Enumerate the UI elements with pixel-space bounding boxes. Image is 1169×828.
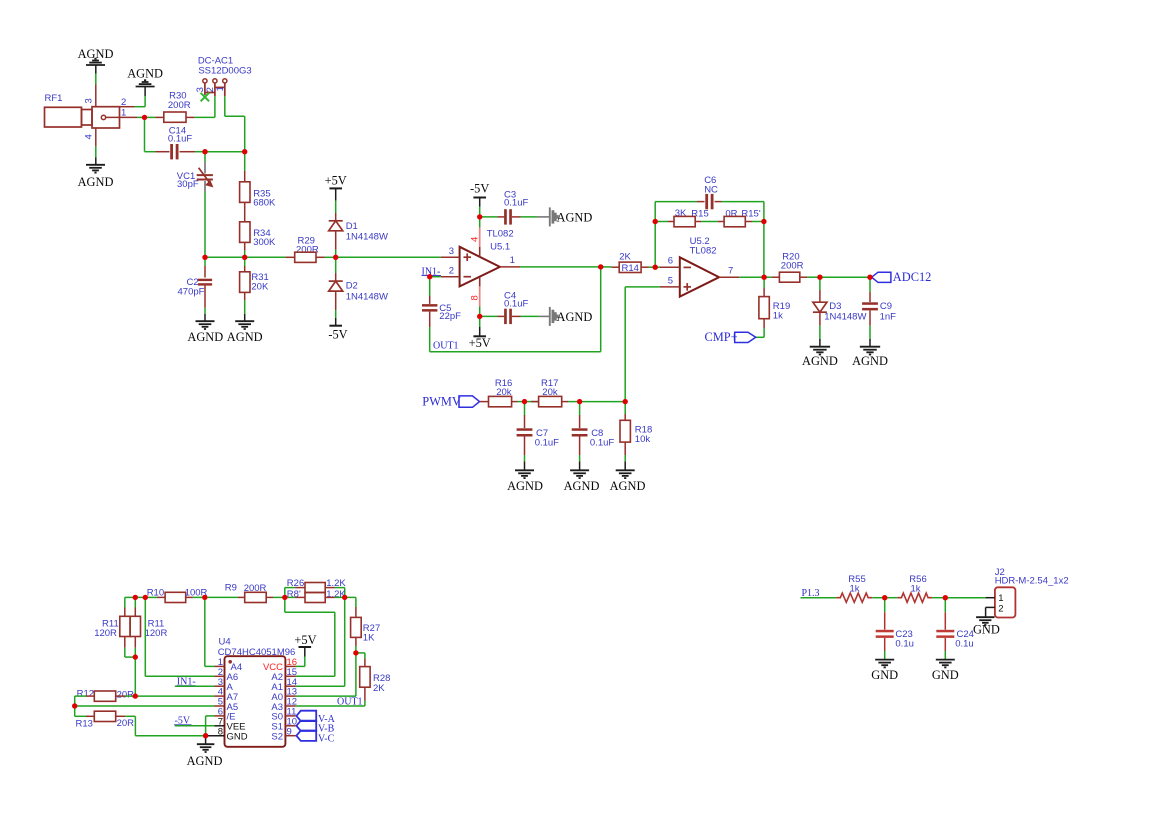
svg-text:7: 7 [728, 266, 733, 277]
svg-text:S2: S2 [271, 732, 283, 743]
svg-text:1k: 1k [773, 311, 783, 322]
svg-text:AGND: AGND [187, 754, 223, 768]
wire (C6 right branch) [722, 202, 764, 222]
wire (feedback right vertical to output) [763, 222, 765, 278]
pin 15 of U4 (A2) [271, 667, 297, 683]
pin 8 of U5.1 (V+) [470, 277, 481, 316]
svg-text:AGND: AGND [127, 67, 163, 81]
net label IN1- (at U4 pin 3) [177, 676, 196, 687]
svg-text:GND: GND [227, 732, 248, 743]
ground AGND (below C9) [852, 326, 888, 368]
wire (R26 node to R27) [345, 597, 356, 607]
wire (R14 to pin 6 node) [649, 266, 655, 268]
pin 3 of U5.1 [441, 246, 460, 257]
wire (P1.3 to R55) [801, 597, 837, 599]
svg-text:10k: 10k [635, 434, 651, 445]
node at R18 [623, 399, 628, 404]
wire (C14 to VC1 node) [195, 151, 205, 153]
ground AGND (below C2) [187, 308, 223, 344]
pin 7 of U5.2 (output) [719, 266, 739, 278]
svg-text:3: 3 [84, 98, 95, 103]
capacitor C9 1nF [862, 277, 896, 325]
wire (pin 13 to R27/R28 node) [296, 653, 356, 696]
pin 14 of U4 (A1) [271, 677, 297, 693]
resistor R13 20R [76, 711, 136, 729]
pin 3 of RF1 [84, 98, 95, 103]
node at -5V / C3 [477, 214, 482, 219]
svg-text:AGND: AGND [610, 479, 646, 493]
svg-text:0.1uF: 0.1uF [504, 298, 528, 309]
ground AGND (right of C4) [539, 307, 592, 326]
wire (node to U5.1 pin 3) [336, 256, 441, 258]
svg-text:0R: 0R [725, 208, 737, 219]
node at R26/R8' right [342, 595, 347, 600]
wire (AGND to RF1 pin 3) [95, 74, 97, 85]
net label OUT1 (U5.1 feedback) [433, 341, 459, 352]
svg-text:8: 8 [470, 295, 481, 300]
wire (R11 top node to A6 node) [135, 596, 145, 598]
resistor R9 200R [205, 582, 273, 602]
node at D1/D2 / U5.1 pin 3 [333, 255, 338, 260]
resistor R14 2K [601, 251, 649, 273]
node at C7 [522, 399, 527, 404]
svg-text:2: 2 [998, 604, 1003, 615]
svg-text:0.1uF: 0.1uF [535, 437, 559, 448]
svg-text:2K: 2K [619, 251, 631, 262]
svg-text:2: 2 [121, 97, 126, 108]
node at R31 / main row [242, 255, 247, 260]
svg-text:4: 4 [470, 237, 481, 242]
svg-text:0.1uF: 0.1uF [504, 198, 528, 209]
wire (U4 pin 6 /E to GND) [206, 716, 215, 736]
pin 2 of DC-AC1 [205, 87, 216, 92]
ground AGND (below C7) [507, 455, 543, 493]
resistor R55 1k [836, 574, 872, 603]
node at C24 [943, 595, 948, 600]
svg-text:TL082: TL082 [690, 245, 717, 256]
node at R15 left / C6 left [653, 219, 658, 224]
svg-text:2: 2 [449, 266, 454, 277]
node at C23 [882, 595, 887, 600]
power flag -5V (below D2) [328, 310, 347, 341]
wire (R12 node to U4 pin 4) [135, 695, 214, 697]
pin 8 of U4 (GND) [206, 726, 248, 742]
svg-text:R15': R15' [741, 208, 760, 219]
resistor R11' 120R [94, 608, 135, 658]
resistor R35 [240, 152, 276, 209]
svg-text:1: 1 [998, 593, 1003, 604]
wire (node down to C14 row) [145, 117, 156, 151]
node at RF1 pin 1 / R30 / C14 [142, 115, 147, 120]
resistor R27 1K [351, 607, 381, 646]
node at R11 top [133, 595, 138, 600]
diode D2 1N4148W [329, 257, 388, 310]
wire (A5 node to U4 pin 5) [75, 705, 215, 707]
svg-text:ADC12: ADC12 [893, 270, 932, 284]
resistor R18 10k [620, 402, 652, 455]
node at C14 row / R35 top [242, 149, 247, 154]
wire (IN1- to U4 pin 3) [175, 685, 215, 687]
pin 16 of U4 (VCC) [263, 657, 297, 673]
capacitor C8 0.1uF [572, 402, 615, 455]
wire (R15 to R15') [701, 221, 718, 223]
wire (R16 to C7 node) [518, 401, 525, 403]
wire (C2 node to R31 node) [205, 256, 245, 258]
svg-text:0.1u: 0.1u [955, 638, 974, 649]
net flag CMP+ [705, 328, 765, 344]
svg-text:0.1uF: 0.1uF [168, 134, 192, 145]
svg-text:NC: NC [704, 184, 718, 195]
node at C8 [577, 399, 582, 404]
ground AGND (at RF1 pin 2) [127, 67, 163, 97]
pin 6 of U4 (/E) [215, 707, 236, 723]
connector J2 HDR-M-2.54_1x2 [995, 567, 1069, 617]
svg-text:2K: 2K [373, 683, 385, 694]
wire (pin 5 down to PWMV node) [625, 287, 660, 402]
svg-text:30pF: 30pF [177, 179, 199, 190]
resistor R15 3K [655, 208, 709, 227]
net label -5V (at U4 pin 7 VEE) [174, 716, 192, 727]
node at D3 [817, 275, 822, 280]
power flag -5V (above U5.1 pin 4) [470, 182, 489, 217]
pin 4 of U5.1 (V-) [470, 217, 481, 257]
net flag PWMV [422, 395, 479, 409]
wire (R11 bottom to R12 node) [134, 657, 136, 696]
svg-text:AGND: AGND [564, 479, 600, 493]
diode D3 1N4148W [813, 277, 867, 325]
wire (R30 to switch pin 2) [194, 116, 215, 118]
pin 2 of RF1 [121, 97, 126, 108]
net flag ADC12 [872, 270, 932, 284]
net flag V-A [296, 711, 335, 725]
svg-text:3: 3 [449, 246, 454, 257]
wire (R27 to R28 node) [355, 646, 357, 653]
svg-text:OUT1: OUT1 [433, 341, 459, 352]
svg-text:V-C: V-C [318, 734, 335, 745]
net flag V-B [296, 721, 334, 735]
wire (R28 bottom to A3/OUT1 line) [296, 701, 365, 707]
capacitor C23 0.1u [876, 598, 914, 651]
pin 4 of RF1 [84, 134, 95, 139]
svg-text:U5.1: U5.1 [490, 242, 510, 253]
resistor R29 [285, 236, 324, 263]
resistor R17 20k [525, 378, 569, 407]
pin 2 of U5.1 [441, 266, 460, 277]
pin 10 of U4 (S1) [271, 716, 297, 732]
svg-text:SS12D00G3: SS12D00G3 [198, 66, 251, 77]
svg-text:AGND: AGND [507, 479, 543, 493]
svg-text:HDR-M-2.54_1x2: HDR-M-2.54_1x2 [995, 575, 1069, 586]
pin 1 of U4 (A4) [215, 657, 243, 673]
svg-text:+5V: +5V [294, 633, 316, 647]
ground AGND (below R18) [610, 455, 646, 493]
resistor R8' 1.2K [285, 589, 347, 603]
ground GND (at J2 pin 2) [973, 607, 1000, 636]
wire (switch pin 1 down to C14 node) [225, 96, 245, 151]
resistor R10 100R [145, 588, 207, 603]
svg-text:0.1u: 0.1u [895, 638, 914, 649]
resistor R16 20k [480, 378, 518, 407]
trimmer capacitor VC1 [177, 152, 213, 258]
wire (R31 node to R29) [245, 256, 286, 258]
svg-text:8: 8 [218, 726, 223, 737]
node at +5V / C4 [477, 314, 482, 319]
ground AGND (below R31) [227, 300, 263, 344]
svg-text:-5V: -5V [328, 328, 347, 342]
svg-text:120R: 120R [94, 628, 117, 639]
node at C14 / VC1 [202, 149, 207, 154]
wire (R10 to R9 node) [193, 596, 205, 598]
svg-text:AGND: AGND [227, 330, 263, 344]
pin 9 of U4 (S2) [271, 726, 295, 742]
pin 4 of U4 (A7) [215, 687, 239, 703]
pin 5 of U4 (A5) [215, 697, 239, 713]
switch DC-AC1 SS12D00G3 [198, 56, 252, 97]
wire (feedback left vertical) [654, 222, 656, 268]
node IN1- at C5 [427, 274, 432, 279]
svg-text:TL082: TL082 [487, 229, 514, 240]
wire (R12 left down to A5 node) [74, 696, 76, 706]
capacitor C3 [480, 190, 537, 225]
capacitor C5 [422, 277, 461, 327]
node at R15' right / C6 right [761, 219, 766, 224]
svg-text:300K: 300K [253, 237, 276, 248]
ground AGND (right of C3) [537, 207, 592, 226]
resistor R15' 0R [718, 208, 761, 226]
svg-text:20R: 20R [117, 718, 135, 729]
pin 2 of U4 (A6) [215, 667, 239, 683]
svg-text:R13: R13 [76, 719, 93, 730]
svg-text:1N4148W: 1N4148W [824, 311, 866, 322]
wire (VC1 node to R35 node) [205, 151, 245, 153]
wire (switch pin 2 down to R30 node) [214, 96, 216, 117]
resistor R11 120R [130, 597, 167, 657]
no-connect X on DC-AC1 pin 3 [201, 93, 210, 102]
resistor R20 200R [764, 252, 807, 283]
wire (pin 15 U-loop to R26 left node) [285, 597, 335, 676]
power flag +5V (above D1) [325, 174, 347, 213]
capacitor C7 0.1uF [517, 402, 560, 455]
node at R12 / U4 pin 4 [133, 693, 138, 698]
node at C9 / ADC12 [867, 275, 872, 280]
svg-text:5: 5 [668, 275, 673, 286]
svg-text:1N4148W: 1N4148W [346, 232, 388, 243]
svg-text:1N4148W: 1N4148W [346, 292, 388, 303]
capacitor C4 [480, 290, 540, 324]
wire (R55 to C23 node) [872, 597, 885, 599]
node at U4 pin 8 GND [203, 733, 208, 738]
node at R11/R11' bottom [133, 654, 138, 659]
pin 12 of U4 (A3) [271, 697, 297, 713]
wire (R20 to D3 node) [807, 276, 820, 278]
power flag +5V (below U5.1 pin 8) [469, 316, 491, 350]
pin 6 of U5.2 [655, 256, 680, 268]
svg-text:PWMV: PWMV [422, 395, 461, 409]
pin 7 of U4 (VEE) [215, 716, 246, 732]
svg-text:R12: R12 [77, 688, 94, 699]
wire (C6 left branch) [655, 202, 697, 222]
op-amp U5.1 TL082 [460, 229, 514, 287]
svg-text:22pF: 22pF [439, 311, 461, 322]
svg-text:1: 1 [510, 255, 515, 266]
node at A5 line left [72, 703, 77, 708]
wire (R15' to C6 right node) [752, 221, 764, 223]
svg-text:1K: 1K [363, 633, 375, 644]
svg-text:CMP+: CMP+ [705, 330, 738, 344]
wire (R29 to D1/D2 node) [325, 256, 336, 258]
svg-text:20K: 20K [251, 281, 269, 292]
pin 1 of U5.1 (output) [500, 255, 520, 267]
pin 11 of U4 (S0) [271, 707, 296, 723]
net label IN1- [422, 266, 442, 277]
pin 1 of J2 [986, 593, 1004, 604]
svg-text:D2: D2 [346, 281, 358, 292]
svg-text:OUT1: OUT1 [337, 697, 363, 708]
wire (RF1 pin 1 to node) [137, 116, 145, 118]
IC U4 CD74HC4051M96 [218, 636, 296, 746]
resistor R28 2K [356, 653, 391, 701]
ground AGND (below U4 pin 8) [187, 736, 223, 768]
resistor R31 [240, 257, 269, 300]
resistor R56 1k [885, 574, 932, 603]
pin 2 of J2 [986, 604, 1004, 615]
svg-text:AGND: AGND [852, 354, 888, 368]
wire (C8 node to R18 node) [580, 401, 626, 403]
ground AGND (above RF1 pin 3) [78, 47, 114, 74]
power flag +5V (at U4 VCC) [294, 633, 316, 666]
svg-text:20R: 20R [117, 689, 135, 700]
ground GND (below C24) [932, 651, 959, 682]
wire (R9 node down to U4 pin 1) [205, 597, 215, 666]
svg-text:200R: 200R [781, 261, 804, 272]
svg-text:1nF: 1nF [880, 311, 897, 322]
wire (top line left bend to R11' top) [124, 597, 126, 607]
connector RF1 [45, 85, 138, 147]
wire (U5.1 output to node) [520, 266, 601, 268]
svg-text:GND: GND [973, 623, 1000, 637]
svg-text:+5V: +5V [469, 336, 491, 350]
svg-text:3K: 3K [675, 208, 687, 219]
svg-text:680K: 680K [253, 198, 276, 209]
resistor R19 1k [759, 277, 790, 328]
node at R9 left / U4 pin 1 [202, 595, 207, 600]
wire OUT1 (C5 to output node) [430, 267, 601, 352]
wire (R17 to C8 node) [568, 401, 580, 403]
wire (R56 to C24 node) [932, 597, 945, 599]
pin 1 of RF1 [121, 108, 126, 119]
pin 3 of DC-AC1 [195, 87, 206, 92]
svg-text:1: 1 [215, 86, 226, 91]
capacitor C6 NC [697, 175, 722, 209]
resistor R12 20R [75, 688, 136, 701]
wire (pin 14 to R26 right node) [296, 597, 345, 686]
net label OUT1 (at U4 A3) [337, 697, 363, 708]
ground AGND (below D3) [802, 326, 838, 368]
capacitor C14 [156, 125, 196, 159]
net label P1.3 [801, 588, 820, 599]
pin 5 of U5.2 [660, 275, 680, 287]
pin 13 of U4 (A0) [271, 687, 297, 703]
svg-text:GND: GND [871, 668, 898, 682]
svg-text:AGND: AGND [802, 354, 838, 368]
node at U5.2 pin 6 / feedback [653, 265, 658, 270]
pin 1 of DC-AC1 [215, 86, 226, 91]
svg-text:R14: R14 [621, 263, 638, 274]
wire (A6 node down to U4 pin 2) [145, 597, 214, 676]
svg-text:AGND: AGND [557, 310, 593, 324]
svg-text:R15: R15 [691, 208, 708, 219]
wire (R13 to U4 pin 8 / GND) [135, 716, 205, 735]
ground GND (below C23) [871, 651, 898, 682]
svg-text:D3: D3 [829, 301, 841, 312]
wire (A5 node down to R13) [75, 706, 86, 716]
wire (C24 node to J2 pin 1) [945, 597, 985, 599]
wire (IN1- node to pin 2) [430, 276, 441, 278]
net flag V-C [296, 731, 334, 745]
wire (-5V to U4 pin 7) [175, 725, 215, 727]
svg-text:AGND: AGND [78, 175, 114, 189]
svg-text:1: 1 [121, 108, 126, 119]
svg-text:470pF: 470pF [178, 287, 205, 298]
node at R27/R28/A0 [353, 650, 358, 655]
svg-text:U4: U4 [219, 636, 231, 647]
node at U5.1 output / R14 / OUT1 [598, 264, 603, 269]
svg-text:120R: 120R [145, 628, 168, 639]
capacitor C24 0.1u [936, 598, 974, 651]
wire (U5.2 output to node) [739, 276, 764, 278]
wire (top line left segment) [125, 596, 136, 598]
svg-text:+5V: +5V [325, 174, 347, 188]
svg-text:AGND: AGND [557, 211, 593, 225]
wire (R9 to R26 node) [273, 596, 285, 598]
svg-text:R8': R8' [287, 589, 301, 600]
node at A6 vertical [143, 595, 148, 600]
ground AGND (below RF1 pin 4) [78, 146, 114, 189]
svg-text:GND: GND [932, 668, 959, 682]
svg-text:9: 9 [287, 726, 292, 737]
svg-text:R9: R9 [225, 582, 237, 593]
svg-text:-5V: -5V [470, 182, 489, 196]
diode D1 1N4148W [329, 213, 388, 257]
op-amp U5.2 TL082 [680, 236, 719, 297]
wire (RF1 pin 2 to AGND) [135, 96, 146, 107]
node at U5.2 output / R19 / feedback [761, 275, 766, 280]
svg-text:AGND: AGND [187, 330, 223, 344]
svg-text:4: 4 [84, 134, 95, 139]
resistor R30 [145, 91, 195, 123]
svg-text:0.1uF: 0.1uF [590, 437, 614, 448]
resistor R34 [240, 202, 276, 257]
capacitor C2 [178, 257, 213, 308]
svg-text:200R: 200R [168, 100, 191, 111]
svg-text:C9: C9 [880, 301, 892, 312]
ground AGND (below C8) [564, 455, 600, 493]
wire (D3 node to C9 node) [820, 276, 870, 278]
pin 3 of U4 (A) [215, 677, 234, 693]
resistor R26 1.2K [285, 578, 347, 597]
svg-text:RF1: RF1 [45, 93, 63, 104]
node at R26/R8' left [282, 595, 287, 600]
svg-text:6: 6 [668, 256, 673, 267]
node at C2 / main row [202, 255, 207, 260]
